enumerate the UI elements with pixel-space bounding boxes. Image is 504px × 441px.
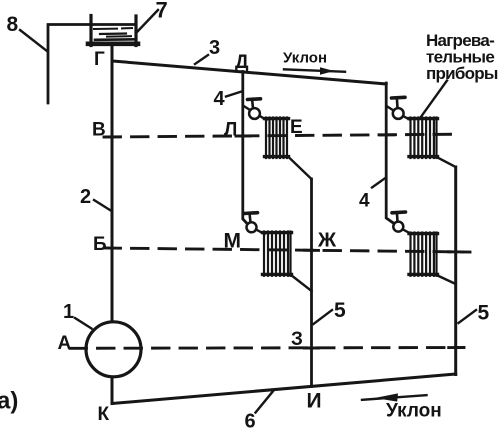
heating devices label xyxy=(421,31,498,118)
label 5 (right drop) xyxy=(459,302,490,325)
svg-text:8: 8 xyxy=(7,13,19,36)
expansion tank 7 xyxy=(88,16,138,46)
label 1 xyxy=(63,301,92,329)
label 5 (middle drop) xyxy=(314,299,347,324)
svg-text:5: 5 xyxy=(478,302,490,325)
svg-text:Г: Г xyxy=(94,49,105,70)
radiator М xyxy=(263,232,292,276)
label 7 xyxy=(137,0,168,32)
svg-text:Б: Б xyxy=(93,234,107,255)
valve on right riser (lower) xyxy=(392,212,406,232)
svg-text:К: К xyxy=(98,404,110,425)
svg-text:а): а) xyxy=(0,388,18,415)
return connection from radiator Е xyxy=(289,157,312,179)
slope label (bottom) xyxy=(362,393,442,421)
radiator Е xyxy=(265,118,289,159)
slope label (top) xyxy=(283,50,345,75)
svg-text:4: 4 xyxy=(214,88,226,110)
svg-text:2: 2 xyxy=(80,186,91,208)
right riser 4 xyxy=(386,83,394,224)
svg-text:В: В xyxy=(92,120,106,141)
middle riser 4 xyxy=(243,72,248,225)
label 3 xyxy=(195,37,220,64)
svg-text:1: 1 xyxy=(63,301,74,323)
return main 6 xyxy=(112,374,456,404)
label 6 xyxy=(245,390,275,433)
svg-text:4: 4 xyxy=(359,191,370,212)
svg-text:6: 6 xyxy=(245,411,256,433)
pump outlet xyxy=(111,377,114,404)
svg-text:А: А xyxy=(58,333,72,354)
radiator (upper right) xyxy=(409,118,438,159)
return connection lower right radiator xyxy=(437,275,456,284)
label 2 xyxy=(80,186,112,211)
connection valve to upper right radiator xyxy=(403,116,411,120)
overflow pipe 8 xyxy=(48,25,134,104)
connection valve to radiator М xyxy=(257,230,265,234)
connection valve to radiator Е xyxy=(260,116,267,120)
svg-text:З: З xyxy=(291,329,303,350)
valve on middle riser at row М xyxy=(244,213,258,233)
svg-text:приборы: приборы xyxy=(426,64,498,83)
svg-text:Д: Д xyxy=(235,52,249,73)
supply main 3 (sloped top line) xyxy=(113,61,387,84)
level line А-З (dashed) xyxy=(70,346,464,350)
label 8 xyxy=(7,13,48,52)
svg-text:Уклон: Уклон xyxy=(386,401,442,422)
middle return drop 5 xyxy=(310,179,313,386)
svg-text:И: И xyxy=(307,390,322,413)
pump 1 (circulation pump) xyxy=(86,322,141,377)
svg-text:5: 5 xyxy=(334,299,346,322)
svg-text:Ж: Ж xyxy=(317,230,337,252)
connection valve to lower right radiator xyxy=(403,230,411,234)
valve on right riser (upper) xyxy=(387,97,406,119)
right return drop 5 xyxy=(454,167,457,375)
return connection from radiator М xyxy=(291,275,312,291)
label 4 (middle riser) xyxy=(214,88,242,110)
radiator (lower right) xyxy=(409,233,438,276)
label 4 (right riser) xyxy=(359,178,386,212)
svg-text:3: 3 xyxy=(209,37,220,59)
return connection upper right radiator xyxy=(437,157,456,167)
valve on middle riser at row Л xyxy=(243,99,261,119)
main riser 2 (hot supply) xyxy=(111,45,114,322)
svg-text:Уклон: Уклон xyxy=(283,50,327,67)
level line Б (dashed) xyxy=(104,248,470,252)
level line В (dashed) xyxy=(104,134,459,137)
